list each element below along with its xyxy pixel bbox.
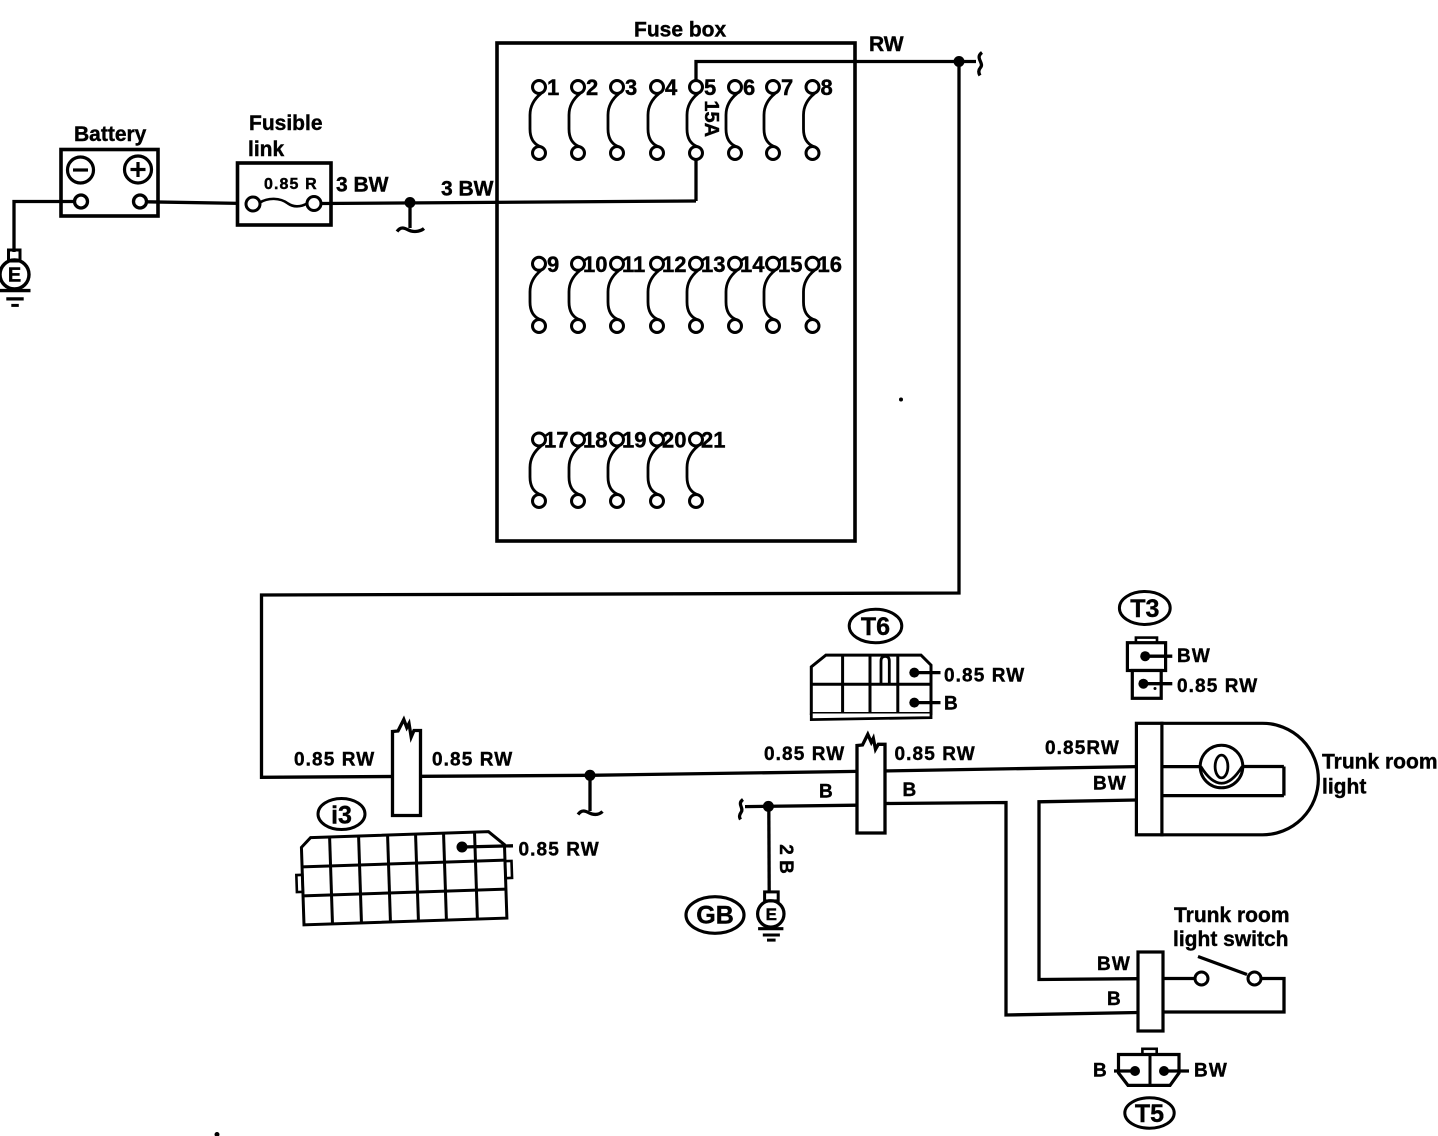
fuse 2 [569,75,598,160]
svg-text:3: 3 [625,75,637,100]
wire right side down and across to lower section [262,62,1137,778]
trunk light connector [1136,723,1162,835]
connector T6 body (top view) [811,655,931,720]
fuse 9 [530,252,559,333]
junction top right [954,56,965,67]
connector stub below main wire junction [578,775,603,814]
GB oval [686,897,744,934]
svg-text:i3: i3 [331,802,352,830]
svg-text:Battery: Battery [74,123,147,146]
T3 pin dot BW [1140,651,1150,661]
svg-text:Trunk room: Trunk room [1174,904,1290,927]
fuse box outline [497,43,855,541]
T6 pin dot B [909,698,919,708]
fuse 4 [648,75,678,160]
i3 oval [318,799,365,830]
svg-text:13: 13 [701,252,725,277]
svg-text:BW: BW [1093,773,1127,794]
wire fusible link to fuse 5 (3 BW) [321,201,696,204]
junction on main lower wire [585,770,596,781]
svg-text:0.85 RW: 0.85 RW [432,750,513,771]
svg-text:1: 1 [547,75,559,100]
T3 pin dot RW [1138,679,1148,689]
fuse 12 [648,252,686,333]
fuse 19 [608,428,646,508]
svg-text:0.85 RW: 0.85 RW [1177,676,1258,697]
fuse 5 [687,75,716,160]
wire fuse5 bottom drop [694,159,697,201]
svg-text:15: 15 [778,252,802,277]
svg-text:16: 16 [818,252,842,277]
svg-text:0.85 RW: 0.85 RW [764,744,845,765]
svg-text:3 BW: 3 BW [441,178,494,201]
fuse 1 [530,75,559,160]
svg-text:0.85 RW: 0.85 RW [895,744,976,765]
ground E (battery) [0,250,31,305]
BW wire from trunk light to switch [1039,800,1138,980]
svg-text:T6: T6 [861,613,890,641]
svg-text:14: 14 [740,252,765,277]
svg-text:light switch: light switch [1173,928,1289,951]
svg-text:B: B [1093,1061,1108,1082]
svg-text:12: 12 [662,252,686,277]
svg-text:15A: 15A [700,100,722,137]
T5 pin dot B [1130,1066,1140,1076]
svg-text:10: 10 [583,252,607,277]
wire battery negative to ground [14,202,76,253]
T5 pin dot BW [1159,1066,1169,1076]
continuation squiggle top right [959,53,982,76]
svg-text:Trunk room: Trunk room [1322,751,1438,774]
fuse 11 [608,252,645,333]
speck artifacts [899,398,903,402]
T3 oval [1119,592,1170,625]
pin dot i3 with lead to label [457,842,468,853]
svg-text:RW: RW [869,33,904,56]
fuse 18 [569,428,607,508]
connector T3 [1127,638,1165,699]
fuse 13 [687,252,725,333]
connector T5 [1119,1049,1180,1086]
svg-text:E: E [8,265,21,287]
connector stub below junction [397,203,424,232]
svg-text:3 BW: 3 BW [336,174,389,197]
trunk room light switch [1163,957,1284,1013]
fuse 15 [764,252,802,333]
svg-text:BW: BW [1194,1061,1228,1082]
svg-text:4: 4 [665,75,678,100]
svg-text:2: 2 [586,75,598,100]
svg-text:B: B [944,694,959,715]
svg-text:BW: BW [1097,954,1131,975]
fuse 6 [726,75,755,160]
fuse 10 [569,252,607,333]
svg-text:B: B [903,780,918,801]
svg-text:18: 18 [583,428,607,453]
fuse 21 [687,428,725,508]
svg-text:GB: GB [696,902,734,930]
svg-text:9: 9 [547,252,559,277]
T6 pin dot RW [909,668,919,678]
battery B1 [61,150,158,217]
svg-text:0.85 RW: 0.85 RW [294,750,375,771]
svg-text:T5: T5 [1135,1100,1164,1128]
wire battery to fusible link [147,202,248,204]
svg-text:B: B [819,782,834,803]
svg-text:Fusible: Fusible [249,112,323,135]
svg-text:T3: T3 [1130,595,1159,623]
connector i3 body (grid) [295,831,513,925]
ground E (GB) [758,892,784,940]
svg-text:Fuse box: Fuse box [634,19,727,42]
fuse 14 [726,252,765,333]
wire junction down to ground GB [767,806,771,892]
T6 oval [849,609,902,642]
svg-text:0.85 RW: 0.85 RW [519,839,600,860]
svg-text:0.85 R: 0.85 R [264,176,318,193]
svg-text:2 B: 2 B [775,844,796,874]
svg-text:11: 11 [622,252,645,277]
fuse 7 [764,75,793,160]
svg-text:6: 6 [743,75,755,100]
fusible link FL [238,163,332,225]
B wire left with squiggle and ground branch [739,800,743,820]
fuse 16 [804,252,842,333]
fuse 20 [648,428,686,508]
junction on B wire [763,801,774,812]
T5 oval [1125,1098,1174,1128]
svg-text:E: E [766,905,777,924]
wire fuse5 top to RW junction [696,62,959,82]
svg-text:8: 8 [821,75,833,100]
junction on 3 BW wire [405,197,416,208]
fuse 8 [804,75,833,160]
fuse 17 [530,428,568,508]
svg-text:link: link [248,138,284,161]
bulb (trunk room light) [1200,745,1243,788]
svg-text:0.85 RW: 0.85 RW [944,665,1025,686]
inline connector i3 (jagged top, covers wire) [393,720,421,816]
svg-text:light: light [1322,776,1366,799]
svg-text:7: 7 [781,75,793,100]
svg-text:5: 5 [704,75,716,100]
trunk room light housing [1136,723,1318,835]
fuse 3 [608,75,637,160]
inline connector at switch (covers wires) [1138,952,1163,1031]
svg-text:0.85RW: 0.85RW [1045,738,1120,759]
svg-text:B: B [1107,989,1122,1010]
inline connector T6 (jagged top, covers wires) [857,734,885,833]
B wire from T6 inline to switch [885,803,1138,1016]
svg-text:21: 21 [701,428,725,453]
svg-text:19: 19 [622,428,646,453]
svg-text:20: 20 [662,428,686,453]
svg-text:17: 17 [544,428,568,453]
svg-text:BW: BW [1177,646,1211,667]
